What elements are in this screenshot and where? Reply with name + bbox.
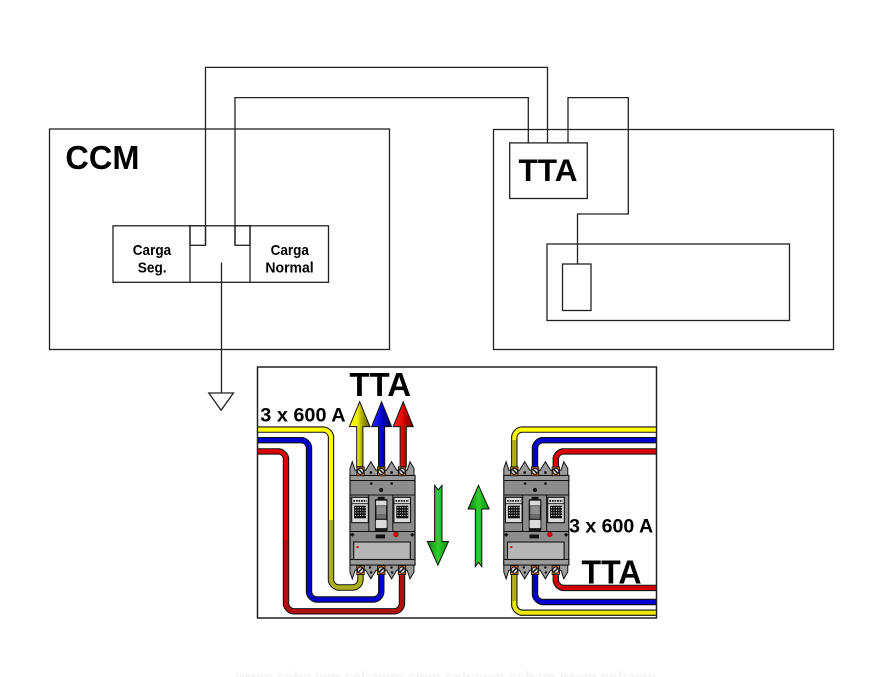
left yellow core lower olive [331,520,361,588]
wire 3 : TTA to small box [568,98,628,264]
open arrow head [209,393,234,410]
green up arrow [468,485,489,566]
left blue core [258,440,382,599]
svg-text:3 x 600 A: 3 x 600 A [569,516,653,538]
left feeder red wire outline [258,451,403,611]
right breaker Q2 [504,462,569,579]
svg-text:TTA: TTA [519,152,578,188]
left feeder blue wire outline [258,440,382,599]
wire 1 : carga to TTA top [206,67,548,245]
inner long rectangle [547,244,790,321]
svg-text:TTA: TTA [349,366,411,403]
right blue bottom wire [535,573,657,603]
right cabinet box [494,130,834,350]
left red core [258,451,403,611]
small rectangle [563,264,592,311]
right yellow top wire [514,430,656,468]
terminal notch 2 [235,226,250,246]
carga outer box [113,226,329,282]
left yellow core [258,430,361,588]
detail view box border restroke [258,367,657,618]
terminal notch 1 [190,226,206,246]
right red top wire [556,451,657,468]
green down arrow [427,485,448,565]
wire 2 : carga to TTA top [235,98,528,246]
right blue top wire [535,440,657,468]
svg-text:Normal: Normal [265,259,313,276]
blue up arrow [372,402,392,467]
drop wire from carga middle [221,263,223,394]
detail view box [258,367,657,618]
yellow up arrow [349,402,370,467]
left feeder yellow wire outline [258,430,361,588]
svg-text:Carga: Carga [271,242,310,259]
TTA box [510,143,588,199]
svg-text:Seg.: Seg. [138,259,167,276]
svg-text:TTA: TTA [582,553,642,590]
right yellow bottom wire [514,573,656,613]
carga divider right [249,226,251,282]
red up arrow [393,402,413,467]
svg-text:wwm seba wm sebawm swm sebawm: wwm seba wm sebawm swm sebawm sebam wwm … [235,669,656,677]
left breaker Q1 [350,462,415,579]
svg-text:3 x 600 A: 3 x 600 A [260,404,345,426]
svg-text:CCM: CCM [65,139,139,176]
left red core lower dark [286,540,402,611]
svg-text:Carga: Carga [133,242,172,259]
carga divider left [189,226,191,282]
right red bottom wire [556,573,657,588]
CCM cabinet box [50,129,390,350]
